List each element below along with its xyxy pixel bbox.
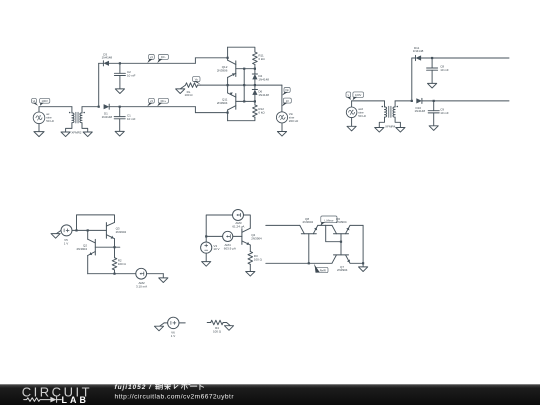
svg-text:Vin: Vin bbox=[285, 88, 289, 92]
svg-text:2N3904: 2N3904 bbox=[336, 220, 347, 224]
svg-text:1 V: 1 V bbox=[171, 334, 176, 338]
node V5 junction bbox=[75, 229, 77, 231]
node C2 junction bbox=[119, 62, 121, 64]
resistor RL bbox=[186, 83, 198, 88]
svg-text:100 Ω: 100 Ω bbox=[213, 329, 222, 333]
wire mirror coupling bbox=[326, 225, 341, 241]
wire XFMR2 secondary to diode node bbox=[82, 106, 99, 108]
wire mirror top line bbox=[266, 224, 300, 226]
resistor R12 bbox=[253, 105, 258, 117]
svg-text:2N3906: 2N3906 bbox=[217, 69, 228, 73]
footer bar bbox=[0, 384, 540, 405]
ground below C1 bbox=[115, 131, 124, 136]
flag v4 bbox=[149, 55, 155, 60]
transistor Q2 (2N3904 NPN mirrored) bbox=[94, 239, 96, 255]
svg-text:1N4148: 1N4148 bbox=[258, 93, 269, 97]
flag 100V (V1) bbox=[40, 98, 50, 103]
node V3 junction bbox=[205, 235, 207, 237]
svg-text:10 mF: 10 mF bbox=[127, 117, 136, 121]
ground XFMR4 secondary bbox=[395, 117, 400, 127]
svg-text:1 V: 1 V bbox=[64, 241, 69, 245]
ground XFMR4 primary bbox=[379, 117, 384, 127]
ground below C8 bbox=[428, 83, 437, 88]
svg-text:100V: 100V bbox=[355, 93, 361, 97]
ground below C2 bbox=[115, 89, 124, 94]
voltage source Vin (sine 200 Hz) bbox=[276, 112, 287, 123]
resistor R2 bbox=[112, 258, 117, 270]
svg-text:10 mF: 10 mF bbox=[440, 111, 449, 115]
svg-text:v3: v3 bbox=[150, 99, 153, 103]
wire D11 to C8 node bbox=[421, 57, 432, 59]
wire V1 top stem bbox=[38, 107, 40, 112]
footer title japanese glyphs bbox=[156, 383, 204, 390]
flag Vo bbox=[193, 77, 200, 82]
flag I_RefR bbox=[315, 267, 328, 272]
wire V6 left bbox=[164, 322, 168, 324]
node Q2 collector junction bbox=[87, 229, 89, 231]
transistor Q11 (2N3904 NPN) bbox=[235, 94, 237, 110]
wire AM2 to ground bbox=[147, 273, 164, 275]
wire Q2 base line bbox=[95, 246, 120, 248]
svg-text:603.9 μA: 603.9 μA bbox=[224, 247, 236, 251]
voltage source V5 (1 V DC) bbox=[61, 225, 72, 236]
node mirror bases bbox=[340, 241, 342, 243]
ground right of R4 bbox=[227, 323, 231, 326]
wire XFMR4 secondary to node bbox=[395, 100, 412, 102]
node C9 junction bbox=[433, 100, 435, 102]
wire C1 node right (DC+ feed) bbox=[120, 106, 196, 108]
diode D4 bbox=[254, 69, 256, 74]
wire node up to D11 bbox=[411, 58, 413, 101]
node R2 bottom junction bbox=[113, 273, 115, 275]
wire output to Vin bbox=[281, 85, 283, 112]
svg-text:61.24 μA: 61.24 μA bbox=[232, 224, 244, 228]
transistor Q4 (2N3904 NPN) bbox=[241, 229, 243, 245]
svg-text:1N4148: 1N4148 bbox=[415, 109, 426, 113]
flag I_Mirror bbox=[321, 216, 337, 223]
svg-text:100 Ω: 100 Ω bbox=[254, 257, 263, 261]
svg-text:10 V: 10 V bbox=[213, 247, 219, 251]
wire Q8 emitter to corner bbox=[318, 224, 326, 226]
svg-text:2N3904: 2N3904 bbox=[303, 220, 314, 224]
wire C2 node right (DC- feed) bbox=[120, 62, 195, 64]
svg-text:v1: v1 bbox=[33, 99, 36, 103]
svg-text:http://circuitlab.com/cv2m6672: http://circuitlab.com/cv2m6672uybtr bbox=[115, 393, 235, 400]
wire R2 bottom bbox=[114, 270, 116, 274]
ammeter AM2 bbox=[136, 268, 147, 279]
wire coupling vertical upper bbox=[243, 69, 245, 85]
svg-text:6 kΩ: 6 kΩ bbox=[258, 57, 265, 61]
ammeter AM3 bbox=[233, 210, 244, 221]
ground left of V5 bbox=[56, 230, 61, 233]
ground XFMR2 primary bbox=[66, 123, 72, 132]
wire Q4 emitter to R3 bbox=[249, 245, 251, 252]
resistor R4 bbox=[207, 322, 211, 324]
wire V3 top bbox=[205, 236, 207, 242]
svg-text:XFMR2: XFMR2 bbox=[71, 130, 81, 134]
node D4 output bbox=[254, 84, 256, 86]
wire V5 to rail bbox=[72, 229, 77, 231]
ground below V2 bbox=[351, 118, 353, 127]
node Q12 base-R11 bbox=[254, 68, 256, 70]
wire V3 to AM4 bbox=[206, 235, 222, 237]
wire Q3 emitter down bbox=[114, 239, 116, 248]
ground left of V6 bbox=[160, 323, 165, 326]
node Q3 emitter junction bbox=[113, 246, 115, 248]
wire Q8 base stem bbox=[308, 234, 310, 264]
wire coupling vertical lower bbox=[243, 85, 245, 101]
wire D1 to C1 node bbox=[109, 106, 120, 108]
wire Q6 base stem bbox=[340, 234, 342, 242]
wire R2 top bbox=[114, 247, 116, 258]
svg-text:3.10 mA: 3.10 mA bbox=[136, 285, 147, 289]
ground XFMR2 secondary bbox=[82, 123, 88, 132]
wire V6 right bbox=[179, 322, 185, 324]
wire DC- column bbox=[227, 47, 229, 60]
svg-text:I_RefR: I_RefR bbox=[317, 268, 326, 272]
wire Q7 base stem bbox=[340, 242, 342, 255]
node C1 junction bbox=[119, 106, 121, 108]
resistor R11 bbox=[253, 52, 258, 65]
svg-text:1N4148: 1N4148 bbox=[102, 56, 113, 60]
svg-text:1N4148: 1N4148 bbox=[102, 115, 113, 119]
svg-text:100 Ω: 100 Ω bbox=[118, 262, 127, 266]
voltage source V6 (1 V DC) bbox=[168, 317, 179, 328]
diode D6 bbox=[254, 85, 256, 89]
wire R11 to base node bbox=[254, 65, 256, 69]
svg-text:50 Hz: 50 Hz bbox=[46, 119, 54, 123]
wire Q11 collector column bbox=[227, 110, 229, 121]
flag DC+ (bottom rail) bbox=[158, 98, 168, 103]
svg-text:DC+: DC+ bbox=[161, 99, 167, 103]
svg-text:6 kΩ: 6 kΩ bbox=[258, 111, 265, 115]
svg-text:10 mF: 10 mF bbox=[127, 74, 136, 78]
wire output line bbox=[201, 84, 282, 86]
wire D10 to C9 node bbox=[422, 100, 434, 102]
node base coupling bottom bbox=[243, 100, 245, 102]
svg-text:I_Mirror: I_Mirror bbox=[324, 218, 334, 222]
voltage source V3 (10 V DC) bbox=[201, 242, 212, 253]
wire right column bbox=[362, 225, 364, 267]
node secondary junction bbox=[98, 106, 100, 108]
svg-text:LAB: LAB bbox=[62, 395, 90, 405]
wire mirror bottom line bbox=[266, 262, 332, 264]
capacitor C8 bbox=[431, 58, 433, 68]
svg-text:2N3904: 2N3904 bbox=[337, 268, 348, 272]
ammeter AM4 bbox=[223, 231, 233, 241]
wire Q6 emitter to right bbox=[350, 224, 363, 226]
svg-text:2N3904: 2N3904 bbox=[251, 236, 262, 240]
wire Q2 emitter down bbox=[87, 256, 89, 274]
svg-text:Vo: Vo bbox=[195, 77, 199, 81]
transistor Q12 (2N3906 PNP) bbox=[235, 61, 237, 77]
node coupling-output bbox=[243, 84, 245, 86]
node Q11 base-R12 bbox=[254, 100, 256, 102]
wire node up to D3 bbox=[98, 63, 100, 106]
capacitor C9 bbox=[433, 101, 435, 111]
svg-text:2N3904: 2N3904 bbox=[217, 101, 228, 105]
wire bottom rail bbox=[228, 117, 255, 121]
ground below R3 bbox=[246, 272, 255, 277]
node DC+ junction bbox=[227, 112, 229, 114]
node output-emitters bbox=[227, 84, 229, 86]
wire Q11 emitter column bbox=[227, 85, 229, 93]
node mirror right junction bbox=[362, 262, 364, 264]
svg-text:1N4148: 1N4148 bbox=[258, 78, 269, 82]
ground RL (tilted stem) bbox=[180, 85, 185, 89]
svg-text:200 Hz: 200 Hz bbox=[289, 119, 299, 123]
ground below V3 bbox=[205, 253, 207, 261]
wire V2 to XFMR4 bbox=[352, 100, 385, 102]
svg-text:XFMR4: XFMR4 bbox=[385, 124, 395, 128]
wire Q7 emitter to column bbox=[350, 262, 363, 264]
svg-text:10 mF: 10 mF bbox=[440, 68, 449, 72]
flag Vin value bbox=[283, 98, 291, 103]
voltage source V1 (ac sine 50 Hz) bbox=[33, 112, 45, 124]
diode D1 bbox=[104, 104, 110, 109]
svg-text:v4: v4 bbox=[150, 55, 153, 59]
ground below Vin bbox=[281, 123, 283, 132]
svg-text:100 Ω: 100 Ω bbox=[184, 93, 193, 97]
ground below C9 bbox=[429, 126, 438, 131]
svg-text:DC-: DC- bbox=[161, 55, 166, 59]
wire Q12 emitter column bbox=[227, 77, 229, 85]
node base coupling top bbox=[243, 68, 245, 70]
svg-text:2N3904: 2N3904 bbox=[76, 247, 87, 251]
wire Q12 base line bbox=[236, 68, 255, 70]
node DC- junction bbox=[227, 57, 229, 59]
wire Q11 base line bbox=[236, 100, 255, 102]
wire left column up bbox=[77, 215, 115, 231]
flag v1 bbox=[32, 98, 37, 103]
ground mirror right bbox=[359, 267, 368, 272]
flag v2 bbox=[346, 92, 351, 98]
transformer XFMR2 bbox=[71, 107, 73, 113]
diode D10 bbox=[416, 98, 422, 103]
capacitor C1 bbox=[119, 107, 121, 117]
transistor Q7 (2N3904 rotated down) bbox=[334, 254, 349, 256]
transistor Q8 (2N3904 rotated) bbox=[301, 233, 316, 235]
svg-text:fuji1052 /: fuji1052 / bbox=[115, 384, 152, 391]
wire top rail to R11 bbox=[228, 47, 255, 52]
flag DC- (top rail) bbox=[158, 55, 168, 60]
svg-text:100V: 100V bbox=[42, 99, 48, 103]
node C8 junction bbox=[431, 57, 433, 59]
wire bottom rail left bbox=[88, 273, 136, 275]
ground right of AM2 bbox=[159, 278, 168, 283]
capacitor C2 bbox=[119, 63, 121, 73]
svg-text:1V: 1V bbox=[286, 99, 289, 103]
wire V1 to XFMR2 bbox=[39, 106, 72, 108]
logo symbol resistor-diode bbox=[24, 397, 62, 403]
voltage source V2 (ac sine 50 Hz) bbox=[351, 101, 353, 107]
wire AM3 to Q4 collector bbox=[244, 215, 251, 228]
wire base node to R12 bbox=[254, 101, 256, 105]
node right secondary junction bbox=[411, 100, 413, 102]
wire V3 column up bbox=[206, 215, 232, 236]
wire AM4 to Q4 base bbox=[233, 235, 242, 237]
transistor Q3 (2N3904 NPN) bbox=[105, 223, 107, 239]
transistor Q6 (2N3904 rotated) bbox=[334, 233, 349, 235]
transformer XFMR4 bbox=[384, 101, 386, 107]
flag v3 bbox=[149, 98, 155, 103]
diode D3 bbox=[103, 61, 109, 66]
svg-text:1N4148: 1N4148 bbox=[413, 49, 424, 53]
wire base rail bbox=[77, 229, 107, 231]
diode D11 bbox=[416, 55, 422, 60]
ground below V1 bbox=[38, 124, 40, 132]
flag Vin bbox=[284, 88, 290, 93]
resistor R3 bbox=[248, 252, 253, 265]
node Q8 base junction bbox=[308, 262, 310, 264]
wire Q2 collector up bbox=[87, 230, 89, 239]
wire Q6 collector stub bbox=[326, 224, 332, 226]
wire C9 node right bbox=[434, 100, 509, 102]
wire D3 to C2 node bbox=[109, 62, 120, 64]
flag 100V (V2) bbox=[353, 92, 364, 98]
svg-text:2N3904: 2N3904 bbox=[116, 230, 127, 234]
wire C8 node right bbox=[432, 57, 509, 59]
svg-text:50 Hz: 50 Hz bbox=[358, 114, 366, 118]
wire R3 bottom bbox=[249, 264, 251, 271]
